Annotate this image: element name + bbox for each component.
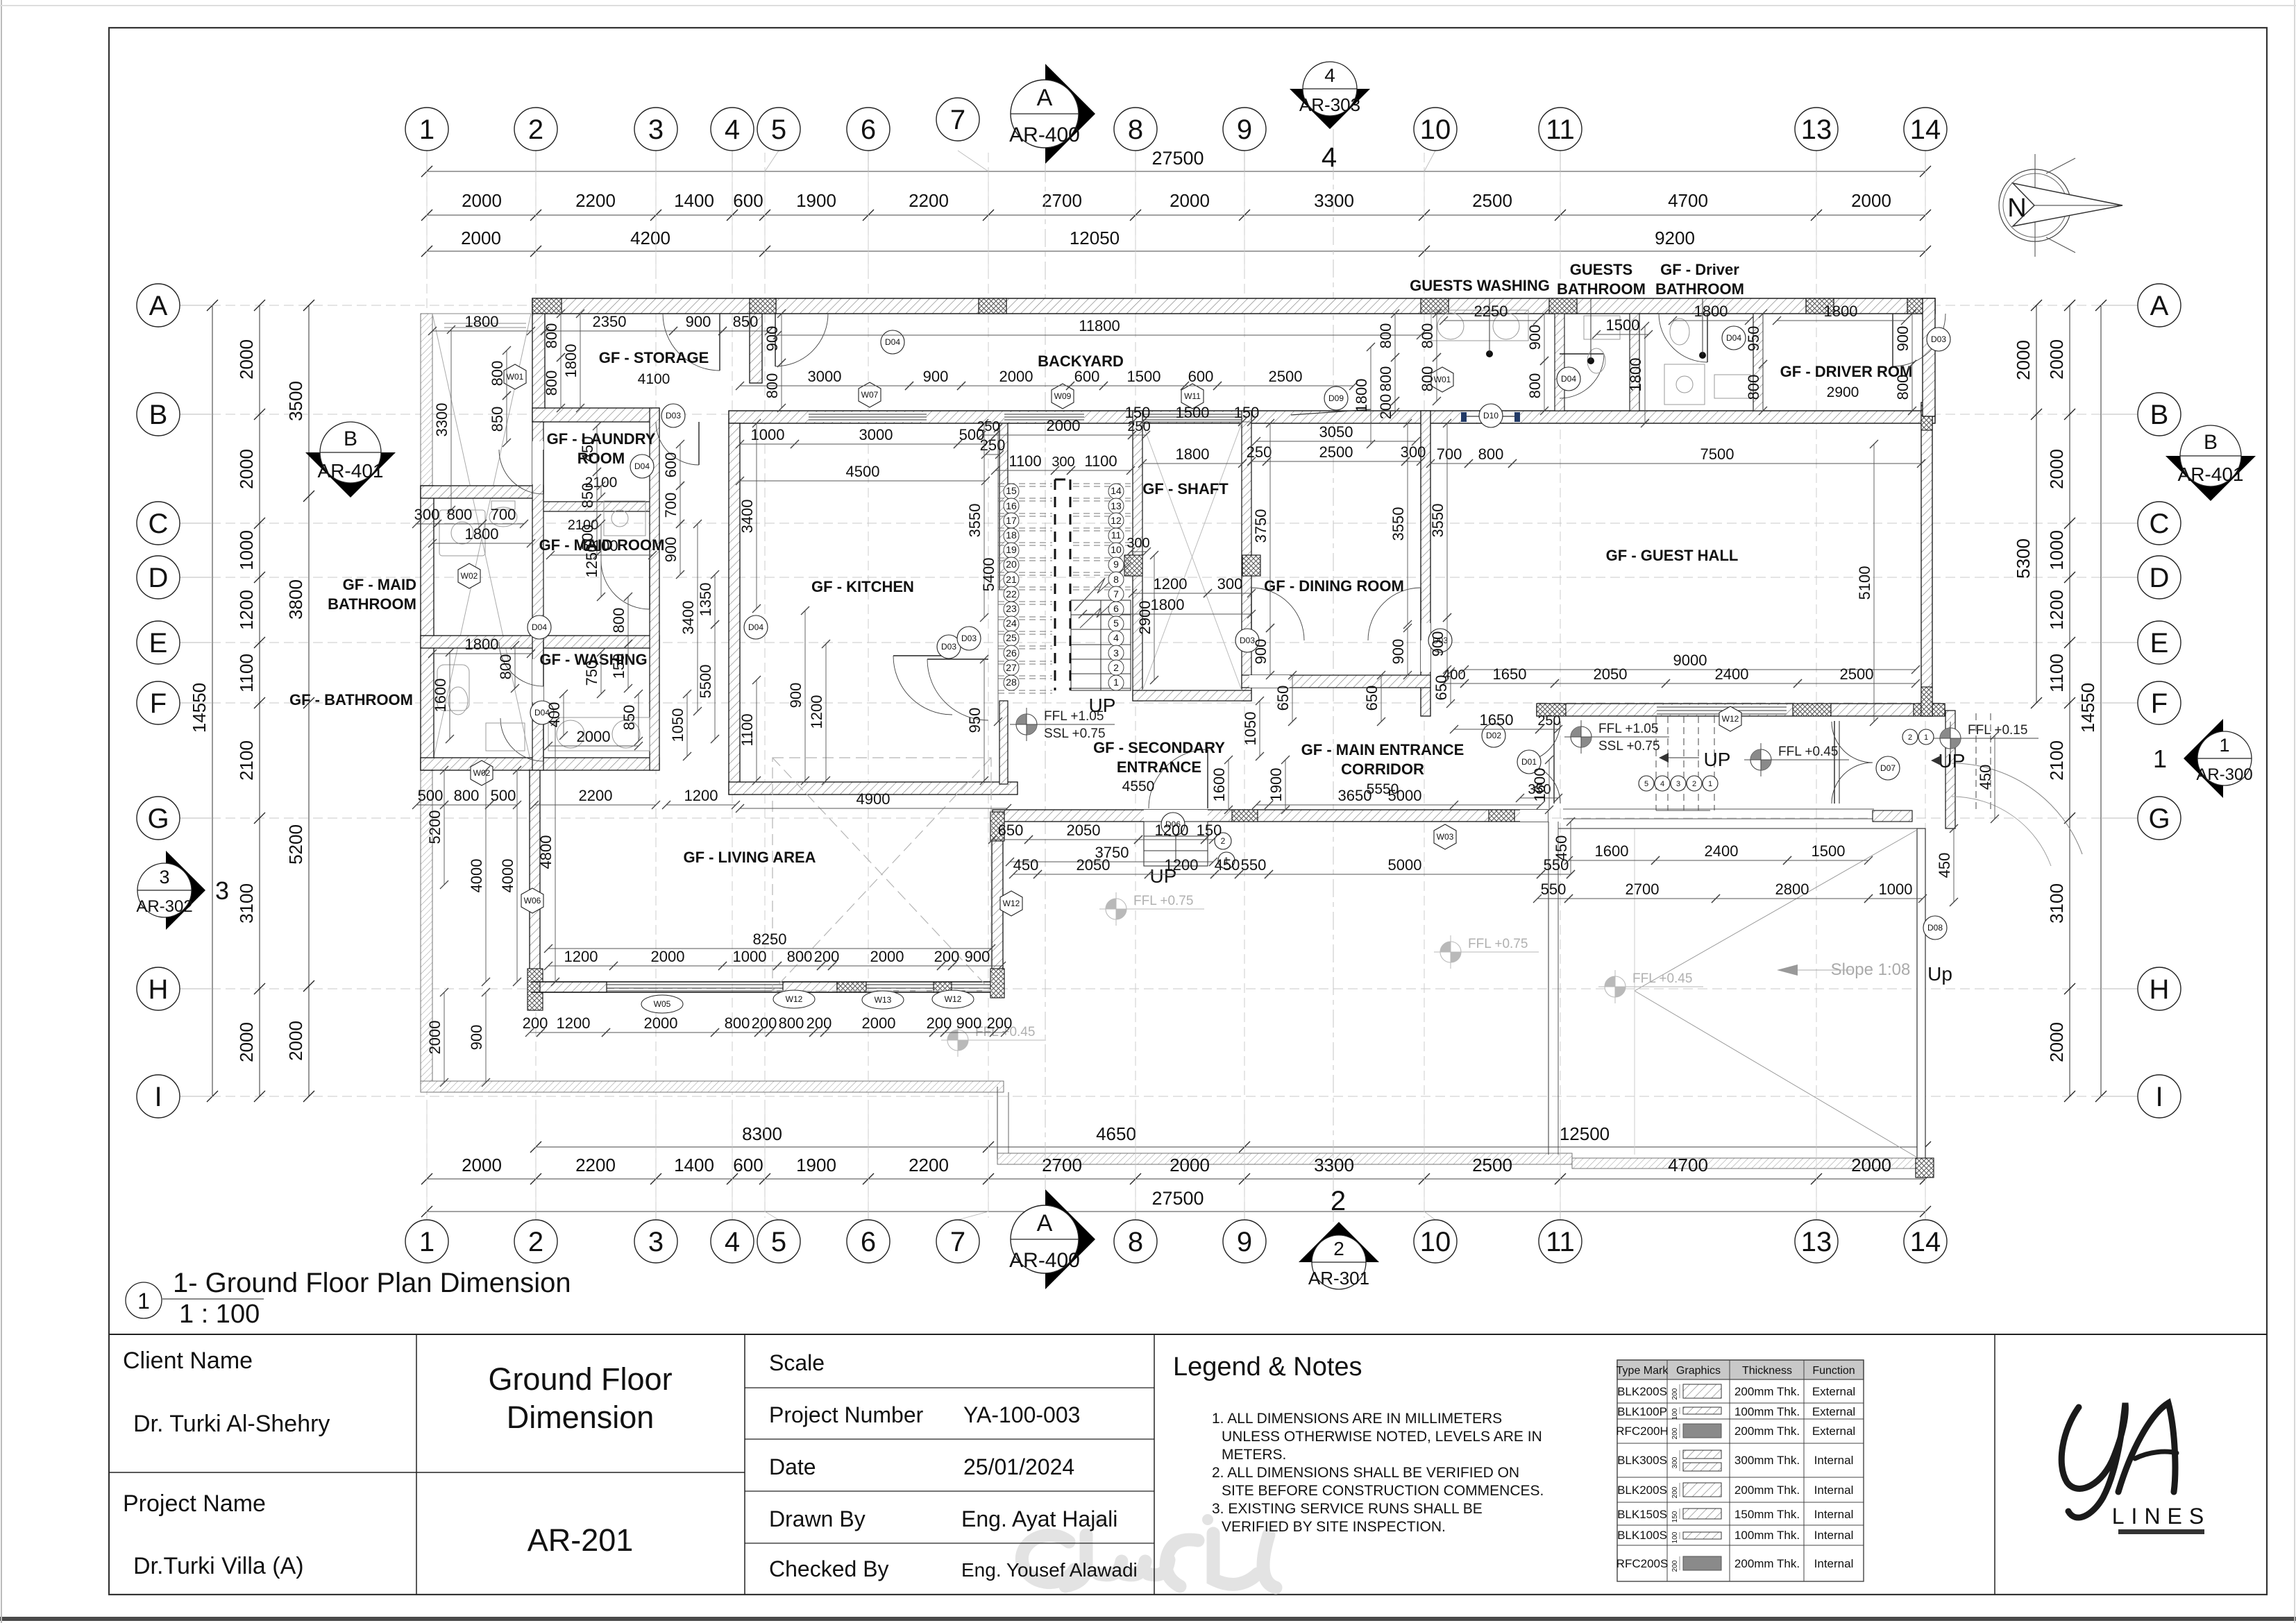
svg-text:Client Name: Client Name	[123, 1348, 253, 1374]
svg-text:AR-303: AR-303	[1299, 94, 1360, 115]
section marker 3 / AR-302 left	[166, 851, 205, 930]
svg-text:2000: 2000	[236, 1022, 257, 1062]
svg-text:300: 300	[1401, 443, 1426, 461]
svg-text:11800: 11800	[1079, 317, 1120, 334]
light well with X bracing	[432, 314, 531, 763]
svg-text:GF - BATHROOM: GF - BATHROOM	[289, 691, 413, 708]
svg-text:BLK100S: BLK100S	[1617, 1529, 1667, 1542]
svg-text:2500: 2500	[1840, 665, 1874, 683]
column grid bubbles top	[405, 108, 448, 151]
svg-text:B: B	[344, 427, 357, 450]
svg-text:900: 900	[1894, 326, 1911, 352]
door D04 washing	[543, 642, 544, 686]
living area east wall	[992, 815, 1003, 992]
svg-text:1050: 1050	[1242, 712, 1259, 746]
svg-text:4500: 4500	[846, 463, 880, 480]
svg-text:1800: 1800	[1151, 596, 1185, 613]
svg-text:2000: 2000	[1170, 190, 1210, 211]
svg-text:H: H	[2150, 974, 2170, 1005]
svg-text:1650: 1650	[1493, 665, 1527, 683]
svg-text:150mm Thk.: 150mm Thk.	[1734, 1508, 1800, 1521]
svg-text:F: F	[2151, 688, 2168, 719]
svg-text:2350: 2350	[593, 313, 627, 330]
svg-text:1000: 1000	[236, 530, 257, 570]
svg-text:1: 1	[419, 1227, 434, 1257]
svg-text:1250: 1250	[583, 544, 600, 578]
dining south wall	[1242, 675, 1430, 688]
svg-text:300: 300	[414, 506, 440, 523]
svg-text:200mm Thk.: 200mm Thk.	[1734, 1425, 1800, 1438]
secondary entrance steps	[1144, 822, 1208, 866]
svg-text:250: 250	[1127, 419, 1150, 434]
svg-text:200: 200	[987, 1014, 1013, 1032]
door tags	[881, 330, 904, 354]
svg-text:800: 800	[447, 506, 473, 523]
svg-text:11: 11	[1111, 529, 1122, 541]
svg-text:21: 21	[1006, 574, 1017, 585]
svg-text:6: 6	[861, 1227, 876, 1257]
svg-text:1000: 1000	[1879, 881, 1913, 898]
driveway curve	[1952, 763, 2082, 854]
svg-text:4550: 4550	[1122, 779, 1155, 794]
svg-text:800: 800	[779, 1014, 804, 1032]
svg-text:4650: 4650	[1096, 1123, 1136, 1144]
svg-text:2200: 2200	[575, 1155, 616, 1175]
svg-text:A: A	[1037, 1210, 1053, 1237]
svg-text:RFC200S: RFC200S	[1617, 1557, 1669, 1570]
drawing title	[126, 1282, 162, 1318]
svg-text:650: 650	[1433, 675, 1450, 701]
bottom dimension chains	[536, 1146, 1925, 1148]
storage east wall	[750, 314, 762, 383]
plot boundary ramp south strip	[1572, 1158, 1918, 1169]
svg-text:GF - DRIVER ROM: GF - DRIVER ROM	[1780, 363, 1913, 380]
svg-text:4: 4	[1322, 142, 1337, 173]
svg-text:Project Number: Project Number	[769, 1402, 924, 1427]
svg-text:BLK150S: BLK150S	[1617, 1508, 1667, 1521]
guest hall east wall	[1921, 402, 1932, 716]
svg-text:900: 900	[1429, 631, 1446, 657]
svg-text:2200: 2200	[579, 787, 613, 804]
svg-text:3: 3	[1113, 647, 1119, 658]
svg-text:SSL +0.75: SSL +0.75	[1044, 726, 1106, 741]
svg-text:D09: D09	[1328, 393, 1344, 403]
svg-text:D03: D03	[961, 634, 977, 643]
svg-text:3550: 3550	[1390, 507, 1407, 541]
svg-text:External: External	[1812, 1425, 1855, 1438]
svg-text:BLK300S: BLK300S	[1617, 1454, 1667, 1467]
svg-text:800: 800	[725, 1014, 750, 1032]
svg-text:YA-100-003: YA-100-003	[963, 1402, 1080, 1427]
svg-text:15: 15	[1006, 485, 1017, 496]
svg-text:750: 750	[583, 661, 600, 686]
svg-text:Up: Up	[1927, 963, 1952, 985]
svg-text:AR-201: AR-201	[527, 1522, 634, 1558]
svg-text:200: 200	[1671, 1486, 1679, 1498]
svg-text:5100: 5100	[1856, 566, 1873, 600]
svg-text:9: 9	[1237, 1227, 1252, 1257]
svg-text:9000: 9000	[1673, 652, 1707, 669]
svg-text:AR-400: AR-400	[1009, 1249, 1080, 1272]
shaft east wall	[1242, 411, 1251, 701]
svg-text:8: 8	[1113, 574, 1119, 585]
svg-text:D04: D04	[748, 622, 763, 632]
svg-text:D04: D04	[532, 622, 547, 632]
svg-text:800: 800	[1526, 373, 1544, 399]
svg-text:2700: 2700	[1042, 1155, 1082, 1175]
svg-text:200mm Thk.: 200mm Thk.	[1734, 1557, 1800, 1570]
svg-text:1400: 1400	[674, 190, 714, 211]
svg-text:7: 7	[950, 105, 965, 135]
title block frame	[109, 1334, 2267, 1335]
svg-text:1200: 1200	[564, 948, 598, 965]
door D07 double	[1834, 721, 1835, 804]
door D03 laundry	[698, 422, 700, 465]
svg-text:FFL +0.45: FFL +0.45	[1778, 745, 1838, 759]
svg-text:AR-301: AR-301	[1308, 1268, 1369, 1289]
service east wall	[650, 408, 659, 770]
svg-text:550: 550	[1241, 856, 1267, 874]
svg-text:1: 1	[2153, 745, 2167, 773]
svg-text:1 : 100: 1 : 100	[179, 1300, 260, 1329]
svg-text:500: 500	[491, 787, 516, 804]
svg-text:I: I	[2155, 1082, 2163, 1112]
svg-text:BLK200S: BLK200S	[1617, 1385, 1667, 1398]
plot boundary west strip	[421, 314, 432, 1084]
door D03 dining west	[1251, 588, 1252, 640]
svg-text:1: 1	[137, 1289, 150, 1314]
svg-text:3650: 3650	[1338, 787, 1372, 804]
svg-text:800: 800	[454, 787, 480, 804]
svg-text:14: 14	[1910, 114, 1941, 145]
svg-text:12: 12	[1111, 515, 1122, 526]
secondary entrance step tags	[1215, 833, 1231, 849]
svg-text:1500: 1500	[1127, 368, 1161, 385]
svg-text:1000: 1000	[2046, 530, 2067, 570]
svg-text:AR-300: AR-300	[2196, 765, 2252, 784]
guests block inner walls	[1555, 314, 1564, 411]
backyard windows in north wall	[809, 412, 927, 422]
door D03 kitchen east	[927, 658, 988, 660]
svg-text:D: D	[149, 563, 169, 593]
svg-text:2000: 2000	[2046, 1022, 2067, 1062]
svg-text:200: 200	[1671, 1560, 1679, 1572]
svg-text:2200: 2200	[575, 190, 616, 211]
svg-text:9: 9	[1237, 114, 1252, 145]
svg-text:26: 26	[1006, 647, 1017, 658]
svg-text:1200: 1200	[557, 1014, 591, 1032]
main steps numbers	[1639, 776, 1654, 791]
svg-text:Drawn By: Drawn By	[769, 1506, 866, 1531]
svg-text:FFL +0.15: FFL +0.15	[1968, 723, 2027, 738]
svg-text:1600: 1600	[1595, 842, 1629, 860]
svg-text:Date: Date	[769, 1454, 816, 1479]
svg-text:G: G	[147, 804, 169, 834]
svg-text:GF - DINING ROOM: GF - DINING ROOM	[1264, 577, 1404, 595]
svg-text:AR-400: AR-400	[1009, 124, 1080, 146]
dining east wall / guest hall west wall	[1421, 411, 1430, 716]
grid centerlines	[182, 153, 2136, 1218]
svg-text:1: 1	[1708, 780, 1712, 788]
door D04 storage-backyard	[775, 314, 776, 366]
svg-text:1800: 1800	[562, 344, 580, 378]
svg-text:3100: 3100	[2046, 883, 2067, 924]
svg-text:2000: 2000	[1851, 1155, 1891, 1175]
svg-text:3: 3	[648, 1227, 664, 1257]
svg-text:AR-401: AR-401	[318, 460, 384, 482]
svg-text:BLK100P: BLK100P	[1617, 1405, 1667, 1418]
svg-text:900: 900	[787, 683, 804, 708]
service block bottom wall	[421, 758, 659, 770]
shaft cross bracing	[1142, 423, 1242, 690]
laundry / maid divider wall	[532, 502, 659, 511]
svg-text:Internal: Internal	[1814, 1529, 1854, 1542]
svg-text:1: 1	[1924, 733, 1928, 742]
svg-text:700: 700	[662, 493, 679, 518]
kitchen south wall	[729, 782, 1018, 794]
svg-text:GF - LIVING AREA: GF - LIVING AREA	[683, 849, 816, 866]
svg-text:W01: W01	[507, 372, 524, 382]
svg-text:3550: 3550	[966, 504, 984, 538]
svg-text:W06: W06	[524, 896, 541, 906]
service block mid wall	[421, 636, 659, 648]
svg-text:1100: 1100	[738, 713, 756, 746]
svg-text:800: 800	[1745, 375, 1762, 400]
stair riser numbers 15-28	[1004, 484, 1019, 499]
svg-text:GF - Driver: GF - Driver	[1660, 261, 1739, 278]
svg-text:Graphics: Graphics	[1676, 1365, 1721, 1377]
svg-text:400: 400	[546, 702, 563, 728]
svg-text:2250: 2250	[1474, 303, 1508, 320]
up arrows	[1659, 753, 1669, 763]
svg-text:300mm Thk.: 300mm Thk.	[1734, 1454, 1800, 1467]
svg-text:950: 950	[966, 708, 984, 733]
svg-text:D03: D03	[666, 411, 681, 420]
svg-text:5500: 5500	[697, 665, 714, 699]
svg-text:1500: 1500	[1812, 842, 1846, 860]
svg-text:900: 900	[923, 368, 949, 385]
svg-text:W13: W13	[875, 995, 892, 1005]
svg-text:950: 950	[1745, 326, 1762, 352]
svg-text:GF - LAUNDRY: GF - LAUNDRY	[547, 430, 656, 448]
svg-text:2000: 2000	[462, 190, 502, 211]
svg-text:W12: W12	[1722, 714, 1739, 724]
ramp slope lines	[1635, 830, 1917, 991]
svg-text:9: 9	[1113, 559, 1119, 570]
svg-text:UNLESS OTHERWISE NOTED, LEVELS: UNLESS OTHERWISE NOTED, LEVELS ARE IN	[1222, 1429, 1542, 1445]
svg-text:2050: 2050	[1067, 822, 1101, 839]
svg-text:900: 900	[763, 326, 781, 352]
svg-text:4: 4	[725, 114, 740, 145]
svg-text:450: 450	[1977, 765, 1994, 790]
svg-text:5300: 5300	[2013, 538, 2034, 579]
svg-text:1000: 1000	[751, 426, 785, 443]
svg-text:W01: W01	[1434, 375, 1451, 384]
north compass	[1999, 169, 2071, 241]
svg-text:2500: 2500	[1269, 368, 1303, 385]
svg-text:1100: 1100	[2046, 654, 2067, 692]
svg-text:4200: 4200	[630, 228, 670, 248]
svg-text:2: 2	[1333, 1238, 1344, 1259]
svg-text:900: 900	[1390, 639, 1407, 665]
svg-text:2400: 2400	[1705, 842, 1739, 860]
svg-text:2000: 2000	[862, 1014, 896, 1032]
plot boundary south strip	[997, 1153, 1572, 1164]
svg-text:25/01/2024: 25/01/2024	[963, 1454, 1074, 1479]
svg-text:BATHROOM: BATHROOM	[1655, 280, 1744, 298]
row grid bubbles left	[137, 284, 180, 327]
svg-text:5: 5	[1644, 780, 1648, 788]
section marker 1 / AR-300 right	[2184, 719, 2223, 798]
svg-text:700: 700	[491, 506, 516, 523]
YA LINES logo	[2061, 1403, 2177, 1518]
svg-text:17: 17	[1006, 515, 1017, 526]
svg-text:13: 13	[1111, 500, 1122, 511]
svg-text:300: 300	[1671, 1456, 1679, 1468]
svg-text:4: 4	[1113, 632, 1119, 643]
svg-text:28: 28	[1006, 677, 1017, 688]
svg-text:SITE BEFORE CONSTRUCTION COMME: SITE BEFORE CONSTRUCTION COMMENCES.	[1222, 1483, 1544, 1499]
svg-text:D04: D04	[1726, 333, 1741, 343]
svg-text:2000: 2000	[2046, 339, 2067, 380]
svg-text:2: 2	[528, 1227, 543, 1257]
terrace east wall	[1548, 822, 1549, 1155]
svg-text:1350: 1350	[697, 583, 714, 617]
svg-text:14: 14	[1910, 1227, 1941, 1257]
svg-text:20: 20	[1006, 559, 1017, 570]
svg-text:1200: 1200	[808, 695, 825, 729]
kitchen west wall	[729, 423, 740, 794]
svg-text:900: 900	[662, 537, 679, 563]
stair riser numbers 14-1	[1108, 484, 1124, 499]
svg-text:2000: 2000	[577, 728, 611, 745]
svg-text:2200: 2200	[909, 1155, 949, 1175]
svg-text:24: 24	[1006, 618, 1017, 629]
building south wall	[993, 810, 1548, 822]
svg-text:4100: 4100	[638, 371, 670, 387]
svg-text:8300: 8300	[742, 1123, 782, 1144]
top dimension chains	[427, 171, 1925, 172]
svg-text:E: E	[149, 628, 168, 658]
svg-text:300: 300	[1126, 536, 1149, 551]
section marker A / AR-400 bottom	[1045, 1189, 1095, 1289]
svg-text:2200: 2200	[909, 190, 949, 211]
svg-text:150: 150	[1671, 1511, 1679, 1522]
svg-text:600: 600	[1188, 368, 1214, 385]
svg-text:2000: 2000	[999, 368, 1033, 385]
door D04 driver bathroom	[1707, 314, 1708, 362]
svg-text:1200: 1200	[2046, 590, 2067, 630]
svg-text:150: 150	[1125, 404, 1151, 421]
svg-text:450: 450	[1553, 835, 1570, 861]
svg-text:D: D	[2150, 563, 2170, 593]
svg-text:2000: 2000	[1851, 190, 1891, 211]
bathroom fixtures	[437, 310, 1750, 751]
door D03 driver room	[1892, 314, 1893, 366]
svg-text:800: 800	[543, 371, 560, 396]
svg-text:4700: 4700	[1668, 190, 1708, 211]
svg-text:1900: 1900	[796, 1155, 836, 1175]
svg-text:3500: 3500	[285, 381, 306, 421]
svg-text:1- Ground Floor Plan Dimension: 1- Ground Floor Plan Dimension	[173, 1268, 571, 1298]
svg-text:GF - GUEST HALL: GF - GUEST HALL	[1606, 547, 1739, 564]
D10 door gap	[1461, 411, 1520, 423]
svg-text:3800: 3800	[285, 579, 306, 620]
svg-text:3300: 3300	[1314, 1155, 1354, 1175]
svg-text:800: 800	[543, 323, 560, 349]
svg-text:1100: 1100	[236, 654, 257, 692]
svg-text:F: F	[150, 688, 167, 719]
svg-text:D08: D08	[1927, 923, 1943, 933]
svg-text:3050: 3050	[1319, 423, 1353, 441]
svg-text:1800: 1800	[1824, 303, 1858, 320]
svg-text:C: C	[2150, 509, 2170, 539]
svg-text:14: 14	[1111, 485, 1122, 496]
svg-text:600: 600	[733, 1155, 763, 1175]
svg-text:1600: 1600	[1531, 768, 1548, 802]
svg-text:5400: 5400	[980, 558, 997, 592]
watermark	[1022, 1533, 1276, 1588]
svg-text:600: 600	[733, 190, 763, 211]
svg-text:650: 650	[1363, 686, 1381, 711]
svg-text:1800: 1800	[465, 313, 499, 330]
door D03 dining east	[1420, 588, 1421, 640]
svg-text:22: 22	[1006, 588, 1017, 600]
svg-text:16: 16	[1006, 500, 1017, 511]
svg-text:Function: Function	[1812, 1365, 1855, 1377]
svg-text:GF - MAID: GF - MAID	[343, 576, 416, 593]
north wall end blocks	[532, 298, 562, 314]
svg-text:8: 8	[1128, 1227, 1143, 1257]
svg-text:4: 4	[1660, 780, 1664, 788]
main south steps	[1656, 716, 1714, 810]
svg-text:800: 800	[497, 654, 514, 680]
svg-text:3300: 3300	[433, 403, 450, 437]
svg-text:900: 900	[1252, 639, 1269, 665]
svg-text:Thickness: Thickness	[1742, 1365, 1792, 1377]
svg-text:2000: 2000	[462, 1155, 502, 1175]
column grid bubbles bottom	[405, 1220, 448, 1263]
svg-text:Eng. Ayat Hajali: Eng. Ayat Hajali	[961, 1506, 1117, 1531]
svg-text:W09: W09	[1054, 391, 1072, 401]
svg-text:27500: 27500	[1151, 1188, 1204, 1209]
svg-text:GF - STORAGE: GF - STORAGE	[599, 349, 709, 366]
svg-text:4800: 4800	[537, 835, 555, 869]
svg-text:800: 800	[1377, 366, 1394, 392]
svg-text:LINES: LINES	[2112, 1504, 2211, 1529]
svg-text:Internal: Internal	[1814, 1484, 1854, 1497]
svg-text:200: 200	[1377, 394, 1394, 420]
plot boundary step connector	[997, 1087, 998, 1159]
svg-text:2500: 2500	[1319, 443, 1353, 461]
svg-text:1800: 1800	[1353, 379, 1370, 413]
svg-text:2500: 2500	[1472, 1155, 1512, 1175]
svg-text:Type Mark: Type Mark	[1617, 1365, 1669, 1377]
section marker B / AR-401 right	[2166, 456, 2256, 501]
left dimension chains	[212, 305, 213, 1096]
svg-text:GUESTS: GUESTS	[1570, 261, 1632, 278]
svg-text:Dimension: Dimension	[507, 1400, 655, 1435]
svg-text:200mm Thk.: 200mm Thk.	[1734, 1484, 1800, 1497]
svg-text:3000: 3000	[808, 368, 842, 385]
kitchen east wall	[999, 423, 1008, 590]
svg-text:B: B	[149, 400, 168, 430]
svg-text:D02: D02	[1486, 731, 1501, 740]
svg-text:W02: W02	[461, 571, 478, 581]
svg-text:3400: 3400	[738, 500, 756, 534]
svg-text:G: G	[2148, 804, 2170, 834]
svg-text:2000: 2000	[644, 1014, 678, 1032]
